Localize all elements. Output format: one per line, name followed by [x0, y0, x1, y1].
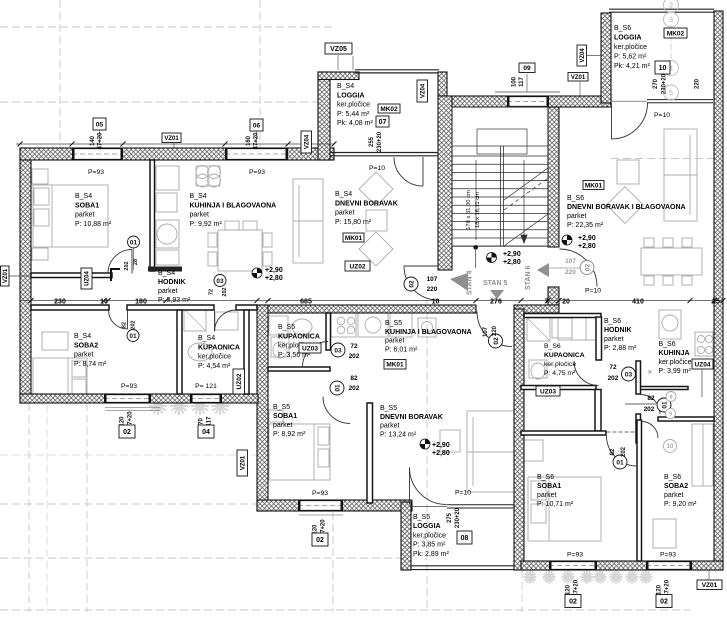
svg-text:VZ01: VZ01 — [164, 136, 179, 142]
label UZ04 B_S6 — [692, 359, 713, 369]
stair datum dot — [473, 245, 478, 250]
wall B_S4 hodnik south b — [127, 305, 214, 310]
svg-text:72: 72 — [350, 343, 358, 350]
svg-text:47+20: 47+20 — [98, 132, 104, 150]
svg-text:VZ04: VZ04 — [304, 134, 310, 149]
svg-text:02: 02 — [123, 429, 131, 436]
svg-text:P=10: P=10 — [369, 165, 385, 172]
svg-text:7: 7 — [545, 299, 549, 306]
label 09 — [519, 63, 535, 73]
svg-text:230+20: 230+20 — [455, 507, 461, 528]
wall B_S4 kitchen/soba1 divider — [150, 160, 155, 271]
wall B_S4 west — [20, 148, 31, 403]
svg-text:09: 09 — [523, 65, 531, 72]
main dimension line — [20, 300, 723, 302]
label MK01 B_S5 — [384, 360, 406, 370]
wall B_S6 soba1 north — [521, 431, 606, 435]
door B_S4 entrance door — [404, 266, 438, 300]
svg-text:UZ02: UZ02 — [236, 373, 243, 389]
svg-text:UZ04: UZ04 — [695, 361, 711, 368]
svg-text:04: 04 — [202, 429, 210, 436]
label 10 box — [655, 61, 670, 74]
parapet B_S4 loggia — [355, 69, 439, 71]
parapet B_S5 loggia south — [411, 565, 514, 567]
label MK01 B_S6 — [583, 181, 604, 190]
door B_S5 soba1 door — [323, 397, 350, 424]
svg-text:UZ04: UZ04 — [85, 271, 91, 286]
wall B_S4 north — [20, 148, 334, 160]
door B_S5 loggia door — [410, 468, 447, 505]
svg-text:UZ03: UZ03 — [302, 345, 318, 352]
shrubs bottom-left — [149, 397, 167, 415]
svg-text:82: 82 — [647, 395, 655, 402]
svg-text:+2,90: +2,90 — [265, 267, 283, 274]
svg-text:02: 02 — [408, 280, 415, 288]
top dimension line — [16, 143, 334, 145]
furniture B_S6 bathroom — [527, 318, 550, 341]
svg-text:✳: ✳ — [647, 369, 653, 377]
label UZ03 B_S6 — [536, 386, 560, 396]
label win 02 — [312, 533, 328, 546]
furniture B_S6 SOBA2 — [653, 519, 676, 548]
svg-text:P=10: P=10 — [654, 112, 670, 119]
svg-text:03: 03 — [216, 278, 224, 285]
wall B_S6 kupaonica east lower — [595, 390, 601, 432]
window P=10 B_S5 loggia north — [447, 504, 514, 506]
svg-text:10: 10 — [659, 65, 667, 72]
svg-text:202: 202 — [131, 320, 137, 329]
wall B_S5 north — [257, 305, 476, 313]
svg-text:220: 220 — [565, 269, 576, 276]
furniture B_S5 SOBA1 bed — [269, 424, 330, 480]
svg-text:107: 107 — [565, 258, 576, 265]
door B_S6 loggia door — [612, 103, 648, 139]
door label 8 gray — [666, 392, 676, 402]
window 05 north B_S4 — [72, 148, 123, 160]
label UZ03 B_S5 — [299, 343, 321, 353]
door label 01 B_S6 hodnik — [657, 398, 671, 412]
svg-text:82: 82 — [122, 322, 128, 328]
svg-text:07: 07 — [379, 119, 387, 126]
label VZ05 — [325, 43, 352, 54]
svg-text:72: 72 — [209, 289, 215, 295]
wall B_S4 loggia north-right — [438, 72, 447, 96]
svg-text:VZ01: VZ01 — [571, 75, 586, 81]
wall B_S4 kupaonica east — [244, 310, 249, 394]
door B_S4 soba1 door — [108, 250, 132, 274]
label VZ01 top — [162, 133, 181, 143]
svg-text:202: 202 — [644, 406, 655, 413]
svg-text:202: 202 — [124, 261, 130, 270]
wall B_S4 east / stairwell west — [438, 96, 452, 270]
svg-text:120: 120 — [566, 584, 572, 595]
svg-text:03: 03 — [625, 371, 633, 378]
svg-text:255: 255 — [369, 136, 375, 147]
wall B_S4 hodnik north — [31, 273, 112, 278]
furniture B_S6 living room — [664, 129, 697, 221]
label VZ04 rot loggia right — [417, 80, 428, 102]
furniture B_S5 kitchen — [331, 313, 356, 337]
svg-text:202: 202 — [349, 385, 360, 392]
svg-text:05: 05 — [96, 121, 104, 128]
svg-text:+2,80: +2,80 — [578, 243, 596, 250]
door label 02 B_S4 entrance — [404, 277, 418, 291]
svg-text:180: 180 — [135, 299, 147, 306]
svg-text:01: 01 — [616, 459, 624, 466]
door label 03 B_S6 — [622, 367, 636, 381]
B_S4 soba1 door dims — [133, 248, 135, 270]
svg-text:220: 220 — [492, 325, 498, 336]
svg-text:47+20: 47+20 — [254, 132, 260, 150]
furniture B_S4 SOBA1 bed — [32, 169, 48, 184]
door jamb B_S4 soba1 — [111, 269, 120, 281]
svg-text:STAN 4: STAN 4 — [467, 271, 474, 295]
svg-text:MK01: MK01 — [345, 235, 363, 242]
svg-text:VZ01: VZ01 — [702, 582, 718, 589]
label 08 — [457, 531, 472, 544]
svg-text:275: 275 — [447, 512, 453, 523]
svg-text:01: 01 — [129, 333, 137, 340]
wall B_S6 south — [521, 561, 723, 570]
door label 01 soba2 B_S4 — [127, 330, 139, 342]
svg-text:82: 82 — [610, 448, 616, 455]
svg-text:P= 121: P= 121 — [195, 383, 217, 390]
label VZ04 rot loggia left — [301, 131, 312, 153]
label 06 — [250, 119, 263, 131]
furniture B_S4 SOBA2 — [42, 332, 68, 350]
shrubs bottom-right — [524, 571, 537, 584]
svg-text:STAN 6: STAN 6 — [525, 266, 532, 290]
door label 01 B_S5 — [330, 381, 344, 395]
loggia B_S4 floor edge — [330, 152, 438, 154]
svg-text:02: 02 — [660, 599, 668, 606]
door B_S6 soba1 door — [607, 436, 638, 467]
wall B_S4 soba2/kupaonica divider — [177, 310, 182, 394]
wall B_S5 west — [257, 305, 268, 511]
svg-text:230+20: 230+20 — [377, 131, 383, 152]
svg-text:220: 220 — [695, 78, 701, 89]
svg-text:9: 9 — [669, 411, 672, 417]
wall B_S6 kupaonica south — [521, 386, 596, 390]
09 stair window dim — [495, 91, 560, 93]
svg-text:+2,90: +2,90 — [578, 235, 596, 242]
svg-text:UZ03: UZ03 — [540, 388, 556, 395]
svg-text:P=10: P=10 — [585, 288, 601, 295]
label MK01 B_S4 — [343, 233, 364, 242]
door B_S6 entrance door — [560, 249, 598, 287]
label VZ01 stair — [568, 73, 588, 82]
door label 9 gray — [666, 409, 676, 419]
stairs — [452, 107, 548, 246]
svg-text:+2,80: +2,80 — [432, 450, 450, 457]
svg-text:178 x 31,00 cm: 178 x 31,00 cm — [466, 190, 472, 230]
door label 03 B_S5 — [331, 343, 345, 357]
svg-text:MK01: MK01 — [386, 362, 404, 369]
window 06 north B_S4 — [225, 148, 288, 160]
svg-text:117: 117 — [519, 77, 525, 87]
door label 02 B_S6 entrance — [580, 261, 594, 275]
level marker — [420, 439, 430, 449]
wall B_S4 loggia west — [318, 72, 330, 160]
svg-text:202: 202 — [621, 446, 627, 457]
svg-text:P=93: P=93 — [567, 552, 583, 559]
svg-text:107: 107 — [427, 276, 438, 283]
wall B_S6 soba1/soba2 divider — [637, 420, 642, 561]
svg-text:+2,80: +2,80 — [503, 259, 521, 266]
svg-text:25: 25 — [712, 299, 720, 306]
svg-text:2: 2 — [669, 1, 673, 10]
svg-text:P=93: P=93 — [312, 490, 328, 497]
svg-text:02: 02 — [584, 264, 591, 272]
svg-text:STAN 5: STAN 5 — [483, 280, 507, 287]
label win 02 — [119, 425, 135, 438]
furniture B_S6 SOBA1 bed — [528, 477, 601, 541]
svg-text:MK02: MK02 — [380, 106, 398, 113]
svg-text:01: 01 — [334, 384, 341, 392]
level marker — [487, 253, 497, 263]
svg-text:202: 202 — [222, 287, 228, 296]
svg-text:72: 72 — [609, 364, 617, 371]
door B_S4 loggia door — [394, 157, 423, 186]
svg-text:VZ01: VZ01 — [3, 268, 9, 283]
level marker — [252, 268, 262, 278]
wall B_S4 hodnik south a — [31, 305, 109, 310]
svg-text:276: 276 — [490, 299, 502, 306]
svg-text:02: 02 — [493, 337, 500, 345]
svg-text:10: 10 — [432, 299, 440, 306]
wall B_S5 soba1/dnevni divider — [367, 403, 373, 503]
svg-text:VZ05: VZ05 — [330, 46, 347, 53]
svg-text:P=93: P=93 — [249, 169, 265, 176]
svg-text:02: 02 — [316, 537, 324, 544]
furniture B_S4 kitchen counter — [196, 166, 220, 186]
window P=10 B_S6 loggia south — [647, 99, 713, 101]
label UZ02 rot — [233, 369, 245, 394]
wall B_S5 kupaonica east — [326, 313, 331, 350]
door label 03 B_S4 — [214, 275, 226, 287]
wall B_S6 loggia west — [601, 13, 611, 103]
svg-text:UZ02: UZ02 — [350, 263, 366, 270]
svg-text:3: 3 — [669, 15, 673, 24]
svg-text:82: 82 — [350, 375, 358, 382]
svg-text:220: 220 — [427, 286, 438, 293]
door B_S6 soba2 door — [642, 422, 659, 439]
label MK02 B_S4 loggia — [378, 104, 400, 113]
svg-text:+2,80: +2,80 — [265, 275, 283, 282]
wall B_S6 soba2 north — [658, 417, 714, 421]
label VZ04 rot B_S6 — [577, 45, 587, 66]
svg-text:P=93: P=93 — [88, 169, 104, 176]
svg-text:10: 10 — [100, 299, 108, 306]
svg-text:08: 08 — [461, 535, 469, 542]
svg-text:28: 28 — [133, 259, 139, 265]
label win 02 — [565, 595, 581, 608]
svg-text:02: 02 — [569, 599, 577, 606]
label 07 — [376, 116, 389, 127]
door B_S4 soba2 door — [109, 310, 128, 329]
svg-text:+2,90: +2,90 — [432, 442, 450, 449]
wall B_S5 south — [257, 500, 412, 511]
wall stairwell east stub — [548, 287, 559, 307]
window 02 south B_S6 soba1 — [549, 561, 597, 570]
door B_S6 kuhinja door — [641, 395, 661, 415]
svg-text:107: 107 — [483, 326, 489, 337]
svg-text:01: 01 — [661, 401, 668, 409]
furniture B_S4 dining table — [218, 230, 262, 271]
svg-text:03: 03 — [334, 347, 342, 354]
svg-text:410: 410 — [632, 299, 644, 306]
wall B_S4 hodnik south c — [236, 305, 257, 310]
wall B_S4 loggia north-left — [318, 72, 359, 80]
svg-text:P=93: P=93 — [660, 552, 676, 559]
svg-text:160: 160 — [246, 135, 252, 146]
svg-text:01: 01 — [130, 239, 138, 246]
wall B_S6 north-west segment — [514, 305, 559, 313]
wall stairwell east — [548, 107, 559, 247]
svg-text:230: 230 — [54, 299, 66, 306]
label VZ01 rot left — [1, 266, 10, 286]
door B_S6 kupaonica door — [574, 361, 599, 386]
svg-text:+2,90: +2,90 — [503, 251, 521, 258]
svg-text:VZ01: VZ01 — [240, 455, 246, 470]
svg-text:270: 270 — [653, 78, 659, 89]
wall stairwell north — [452, 96, 611, 107]
wall B_S5 kupaonica south — [268, 367, 330, 371]
svg-text:5: 5 — [669, 88, 673, 97]
svg-text:MK02: MK02 — [667, 30, 685, 37]
wall B_S5 loggia west — [401, 502, 411, 570]
wall B_S6 kupaonica north — [524, 314, 601, 318]
parapet B_S6 loggia north — [609, 8, 714, 10]
svg-text:P=93: P=93 — [121, 383, 137, 390]
svg-text:100: 100 — [512, 76, 518, 87]
furniture B_S4 living room — [293, 179, 323, 263]
svg-text:VZ04: VZ04 — [420, 83, 426, 98]
window 04 south B_S4 — [190, 394, 222, 403]
svg-text:70: 70 — [199, 418, 205, 425]
door label 01 B_S6 soba1 — [613, 455, 627, 469]
window 02 south B_S6 soba2 — [646, 561, 692, 570]
door B_S4 kupaonica door — [215, 310, 237, 332]
svg-text:06: 06 — [253, 122, 261, 129]
label 05 — [93, 118, 106, 130]
svg-text:202: 202 — [608, 375, 619, 382]
label win 02 — [656, 595, 672, 608]
svg-text:VZ04: VZ04 — [580, 48, 586, 63]
svg-text:MK01: MK01 — [585, 182, 603, 189]
door B_S5 kupaonica door — [303, 342, 329, 368]
window 09 stairwell — [507, 96, 549, 107]
label VZ01 rot B_S5 — [237, 450, 248, 476]
label win 04 — [198, 425, 214, 438]
label UZ04 rot B_S4 — [81, 268, 92, 289]
svg-text:230+20: 230+20 — [662, 73, 668, 94]
wall B_S6 kitchen counter edge — [640, 387, 688, 390]
wall B_S6 kupaonica east upper — [596, 317, 602, 360]
STAN labels — [450, 273, 468, 291]
label VZ01 bottom right — [697, 580, 722, 590]
door B_S5 entrance door — [477, 312, 512, 347]
wall B_S4 south — [20, 394, 258, 403]
furniture B_S4 bathroom — [184, 309, 206, 331]
label MK02 B_S6 loggia — [664, 28, 687, 38]
wall B_S6 east — [714, 11, 723, 570]
svg-text:20: 20 — [562, 299, 570, 306]
svg-text:10: 10 — [667, 444, 674, 450]
svg-text:8: 8 — [669, 394, 672, 400]
wall B_S6 west — [514, 309, 524, 570]
svg-text:P=10: P=10 — [455, 490, 471, 497]
door label 02 B_S5 entrance — [489, 334, 503, 348]
svg-text:120: 120 — [657, 584, 663, 595]
wall B_S6 hodnik/kuhinja divider low — [636, 414, 641, 443]
level marker — [562, 235, 572, 245]
label UZ02 B_S4 horiz — [345, 261, 370, 271]
wall B_S6 hodnik/kuhinja divider — [636, 361, 641, 394]
svg-text:685: 685 — [300, 299, 312, 306]
svg-text:202: 202 — [349, 353, 360, 360]
svg-text:140: 140 — [90, 135, 96, 146]
svg-text:18 x 16,11 cm: 18 x 16,11 cm — [475, 192, 481, 228]
furniture B_S6 kitchen — [558, 314, 600, 340]
door label 10 gray — [664, 440, 677, 453]
furniture B_S5 living room couch — [467, 411, 517, 492]
axis bubbles 2-5 — [664, 0, 679, 100]
furniture B_S6 dining table — [641, 248, 702, 275]
furniture B_S5 bathroom — [269, 316, 288, 335]
door label 01 soba1 B_S4 — [128, 236, 140, 248]
window 02 south B_S4 — [104, 394, 151, 403]
window 02 south B_S5 — [298, 500, 343, 511]
